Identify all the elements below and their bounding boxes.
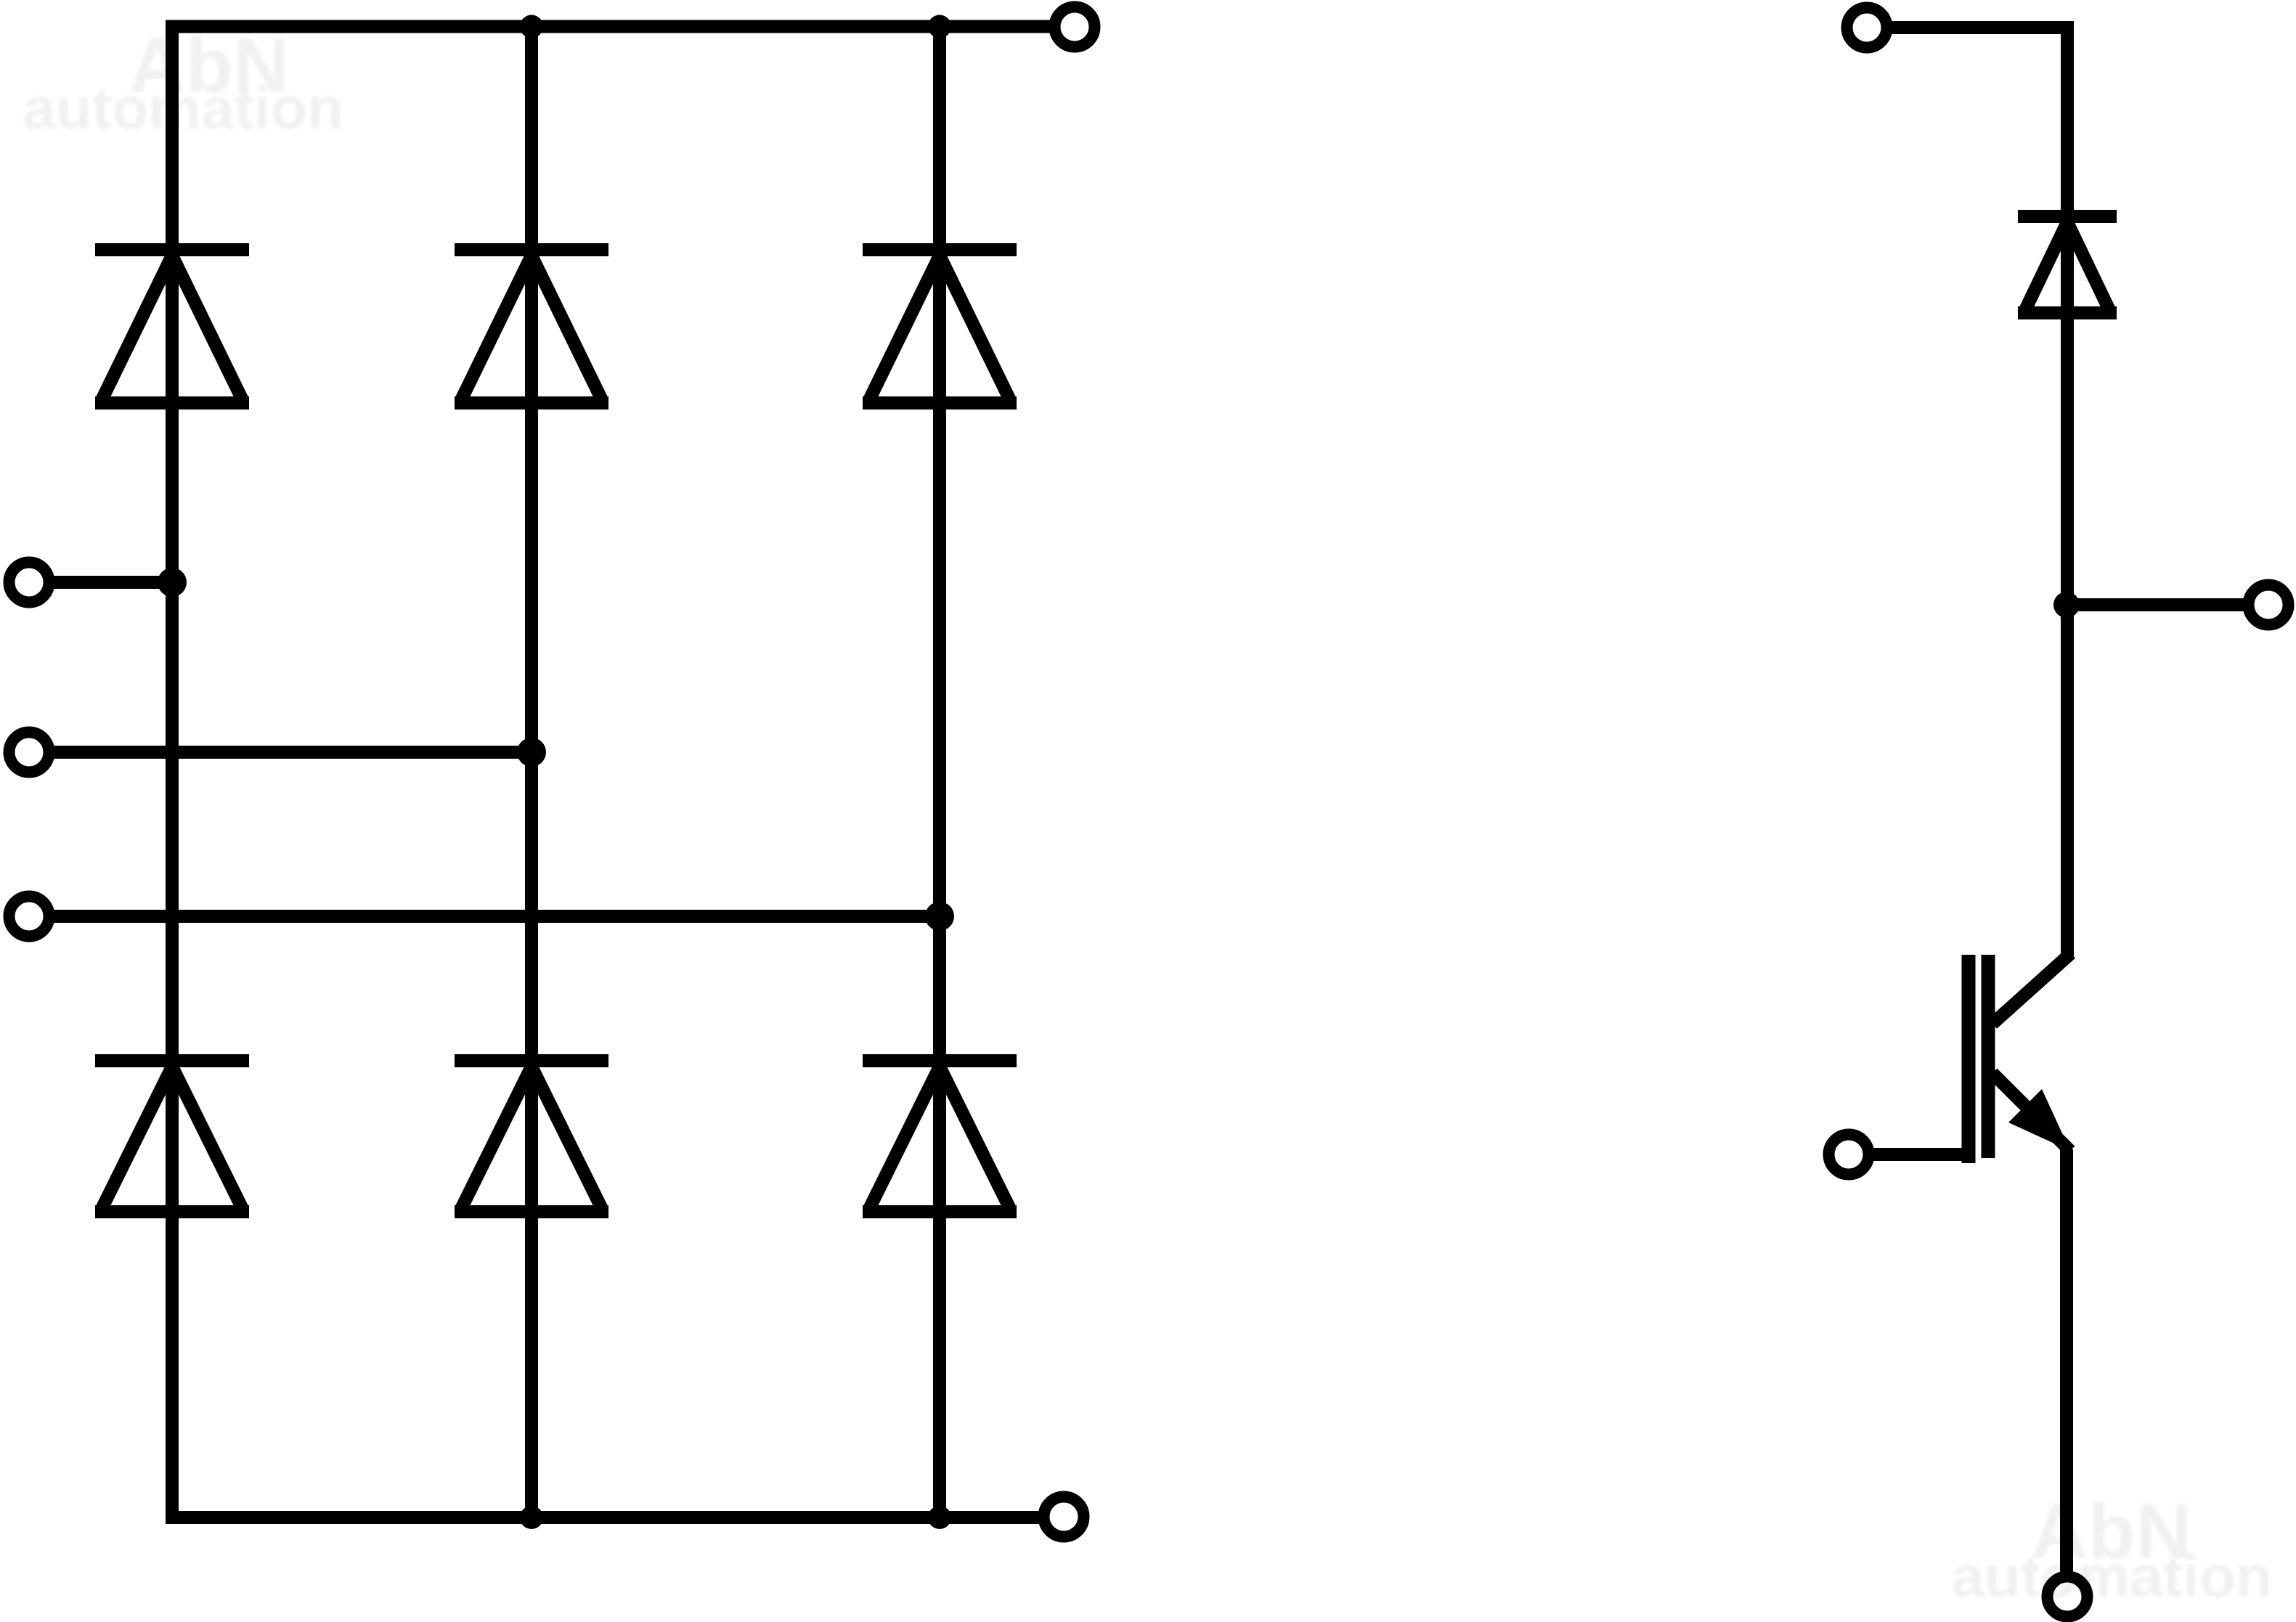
collector diagonal [1992, 953, 2071, 1024]
terminal AC2 [9, 733, 49, 773]
diode D3 [863, 250, 1017, 403]
terminal gate [1829, 1135, 1869, 1175]
body bar [1982, 955, 1995, 1158]
wire emitter vertical [2060, 1149, 2073, 1573]
terminal right bottom [2048, 1577, 2088, 1617]
wire gate [1873, 1148, 1969, 1161]
terminal right top [1847, 8, 1887, 48]
node junction dot AC2 / leg 2 [517, 738, 546, 767]
wire AC input 3 [54, 910, 940, 923]
wire top DC+ rail [166, 20, 1051, 33]
node junction dot bottom rail / leg 3 [928, 1506, 951, 1529]
watermark bottom-right [1951, 1487, 2272, 1610]
wire bottom DC- rail [172, 1511, 1039, 1524]
wire leg 3 vertical [933, 27, 946, 1518]
wire AC input 2 [54, 746, 532, 759]
emitter diagonal [1992, 1073, 2070, 1151]
node junction dot AC1 / leg 1 [158, 568, 187, 597]
node junction dot bottom rail / leg 2 [520, 1506, 543, 1529]
wire leg 1 vertical [166, 20, 179, 1525]
emitter arrowhead [2008, 1089, 2070, 1151]
svg-text:automation: automation [23, 76, 343, 142]
diode D2 [455, 250, 608, 403]
watermark top-left [23, 21, 343, 142]
node junction dot top rail / leg 3 [928, 15, 951, 38]
terminal DC+ [1055, 7, 1095, 47]
terminal right mid [2249, 585, 2289, 625]
terminal AC3 [9, 897, 49, 937]
node junction dot right mid [2053, 592, 2080, 618]
wire leg 2 vertical [525, 27, 538, 1518]
gate bar [1962, 955, 1976, 1163]
svg-text:automation: automation [1951, 1544, 2272, 1610]
wire right top [1891, 28, 2067, 957]
diode D1 [95, 250, 249, 403]
diode D4 [95, 1061, 249, 1212]
terminal AC1 [9, 563, 49, 603]
terminal DC- [1044, 1497, 1084, 1537]
wire right mid output [2067, 598, 2245, 611]
diode D5 [455, 1061, 608, 1212]
wire AC input 1 [54, 576, 172, 589]
diode D7 [2018, 216, 2117, 313]
node junction dot AC3 / leg 3 [925, 902, 954, 931]
diode D6 [863, 1061, 1017, 1212]
node junction dot top rail / leg 2 [520, 15, 543, 38]
transistor Q1 IGBT [1969, 953, 2071, 1163]
